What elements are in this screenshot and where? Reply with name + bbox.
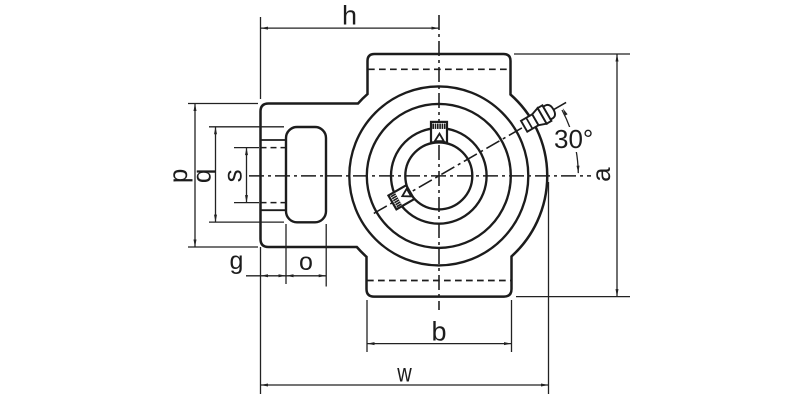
arrow p top: [194, 104, 197, 112]
dim s extension line bottom: [234, 202, 259, 204]
arrow o left: [286, 274, 294, 277]
slot lower edge: [261, 209, 287, 211]
dim q line: [215, 127, 217, 222]
dim p extension line top: [188, 103, 258, 105]
slot hidden upper edge: [261, 147, 287, 149]
circle r71.5: [367, 104, 511, 248]
arrow 30 bottom: [577, 166, 580, 174]
dim a line: [616, 54, 618, 297]
dim o extension line right: [325, 224, 327, 287]
dim g and o line: [246, 275, 326, 277]
housing outline: [261, 54, 548, 297]
horizontal centerline: [249, 175, 591, 177]
arrow h right: [432, 27, 440, 30]
DIMENSIONS: [188, 17, 630, 394]
dim w line: [261, 384, 549, 386]
slider boss: [286, 127, 326, 222]
slot upper edge: [261, 139, 287, 141]
dim s line: [246, 148, 248, 203]
svg-text:30°: 30°: [554, 124, 593, 154]
white backing for 30 deg label: [552, 127, 584, 152]
circle r32.5 bore: [405, 142, 472, 209]
arrow g left: [261, 274, 269, 277]
dim o extension line left: [285, 224, 287, 284]
svg-text:b: b: [431, 317, 446, 347]
dim q extension line bottom: [209, 221, 284, 223]
diagonal 30deg centerline: [374, 102, 566, 213]
dim q extension line top: [209, 126, 284, 128]
dim b extension line right: [511, 300, 513, 352]
svg-text:q: q: [187, 169, 217, 183]
arrow w left: [261, 384, 269, 387]
arrow o right: [319, 274, 327, 277]
svg-text:g: g: [230, 247, 244, 275]
set screw lower left: [388, 185, 414, 209]
grease fitting: [520, 102, 558, 134]
dim a extension line top: [514, 53, 630, 55]
svg-text:s: s: [218, 169, 248, 182]
dim p extension line bottom: [188, 246, 258, 248]
arrow h left: [261, 27, 269, 30]
arrow q top: [214, 127, 217, 135]
arrow q bottom: [214, 215, 217, 223]
dim h extension line left: [260, 17, 262, 99]
arrow w right: [541, 384, 549, 387]
svg-text:o: o: [299, 248, 313, 276]
dim b extension line left: [366, 300, 368, 352]
circle r47.7 bearing outer: [391, 128, 487, 224]
arrow p bottom: [194, 240, 197, 248]
circle r90 boss face: [349, 86, 528, 265]
slot hidden lower edge: [261, 202, 287, 204]
dim w extension line right: [548, 182, 550, 394]
arrow 30 top: [563, 108, 568, 115]
arrow b left: [367, 342, 375, 345]
arrow a top: [616, 54, 619, 62]
dim w extension line left: [260, 247, 262, 394]
arrow s bottom: [245, 195, 248, 203]
arrow s top: [245, 148, 248, 156]
dim 30 deg angle arc: [562, 110, 578, 173]
arrow b right: [504, 342, 512, 345]
svg-text:a: a: [586, 167, 616, 182]
arrow g right: [279, 274, 287, 277]
dim s extension line top: [234, 147, 259, 149]
svg-text:h: h: [342, 1, 357, 31]
dim p line: [194, 104, 196, 248]
set screw top: [431, 122, 447, 143]
dim h line: [261, 27, 440, 29]
arrow a bottom: [616, 289, 619, 297]
top boss hidden dashed line: [368, 68, 510, 70]
dim a extension line bottom: [516, 296, 630, 298]
arrows: [194, 27, 619, 387]
vertical centerline: [438, 15, 440, 310]
svg-text:w: w: [396, 358, 411, 388]
bottom boss hidden dashed line: [367, 280, 511, 282]
dim b line: [367, 343, 512, 345]
